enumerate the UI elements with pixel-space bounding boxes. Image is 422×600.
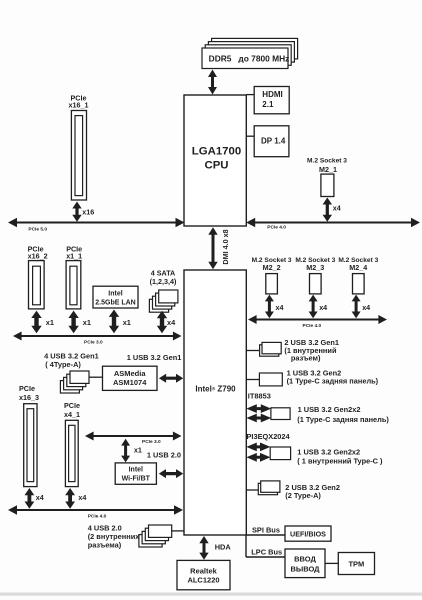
port USB Gen2x2 rear Type-C: [271, 408, 290, 420]
M.2 socket M2_1: [307, 158, 347, 197]
svg-text:x4_1: x4_1: [64, 410, 80, 419]
svg-text:разъема): разъема): [88, 540, 122, 549]
bus PCIe 5.0 CPU left: [8, 218, 185, 233]
svg-text:PCIe 3.0: PCIe 3.0: [142, 439, 161, 445]
svg-text:Intel® Z790: Intel® Z790: [195, 385, 236, 394]
svg-text:x4: x4: [319, 303, 327, 312]
wire x16_3 x4 arrow: [25, 488, 44, 509]
svg-text:M2_3: M2_3: [306, 263, 324, 272]
wire USB2 stack to chipset: [172, 530, 184, 532]
wire IT8853 arrows: [246, 404, 271, 422]
svg-text:x4: x4: [333, 203, 341, 212]
wire M2_3 x4 arrow: [309, 295, 328, 319]
svg-text:ВЫВОД: ВЫВОД: [290, 564, 320, 573]
svg-text:HDMI: HDMI: [262, 90, 282, 99]
svg-text:(1 Type-C задняя панель): (1 Type-C задняя панель): [287, 376, 379, 385]
label 4 USB 2.0: [88, 523, 141, 549]
decorative: [0, 593, 422, 596]
wire x16_2 x1 arrow: [31, 311, 54, 334]
ports 4 SATA stack: [149, 268, 178, 312]
svg-text:M2_4: M2_4: [349, 263, 367, 272]
bus PCIe 3.0 upper: [13, 332, 182, 346]
slot PCIe x4_1: [64, 401, 80, 486]
slot PCIe x16_1: [69, 93, 89, 200]
port USB Gen2x2 internal Type-C: [270, 447, 290, 460]
wire HDA link arrow: [199, 536, 231, 560]
redriver IT8853: [248, 391, 271, 400]
port DP 1.4: [254, 126, 289, 157]
svg-text:M2_1: M2_1: [319, 165, 337, 174]
svg-text:ASMedia: ASMedia: [114, 369, 147, 378]
svg-text:(2 Type-A): (2 Type-A): [285, 491, 321, 500]
label 4 USB 3.2 Gen1: [44, 351, 99, 369]
label 2 USB 3.2 Gen2: [285, 483, 340, 500]
slot PCIe x16_3: [19, 384, 39, 486]
ports USB 2.0 stack: [139, 525, 172, 547]
bus PCIe 4.0 M.2 row: [248, 315, 387, 329]
wire PI3EQX2024 arrows: [246, 443, 270, 462]
wire DDR5 to CPU arrow: [208, 70, 217, 95]
svg-text:DP 1.4: DP 1.4: [261, 136, 286, 145]
svg-text:TPM: TPM: [348, 559, 364, 568]
svg-text:PCIe 4.0: PCIe 4.0: [303, 323, 322, 329]
port HDMI 2.1: [254, 87, 289, 114]
svg-text:x1: x1: [46, 318, 54, 327]
wire IO to TPM: [325, 562, 338, 564]
svg-text:UEFI/BIOS: UEFI/BIOS: [290, 529, 326, 538]
svg-text:PCIe 4.0: PCIe 4.0: [88, 514, 107, 520]
ports 2 USB 3.2 Gen1: [260, 342, 282, 356]
chipset Intel Z790: [184, 270, 246, 535]
svg-text:ALC1220: ALC1220: [187, 576, 219, 585]
M.2 socket M2_3: [295, 257, 335, 294]
redriver PI3EQX2024: [247, 432, 291, 441]
svg-text:x16_1: x16_1: [69, 100, 89, 109]
svg-text:x4: x4: [362, 303, 370, 312]
wire LPC bus: [246, 535, 285, 558]
module Intel Wi-Fi BT: [115, 463, 156, 484]
svg-text:PCIe: PCIe: [64, 401, 80, 410]
bus PCIe 4.0 CPU right: [246, 218, 420, 231]
svg-text:PCIe 4.0: PCIe 4.0: [267, 224, 286, 230]
svg-text:x4: x4: [167, 318, 176, 327]
memory DDR5 stack: [202, 38, 298, 68]
svg-text:LPC Bus: LPC Bus: [251, 548, 282, 557]
svg-text:x4: x4: [36, 493, 44, 502]
ports 2 USB 3.2 Gen2: [258, 481, 280, 495]
svg-text:ВВОД: ВВОД: [294, 554, 316, 563]
svg-text:x1: x1: [134, 446, 142, 455]
M.2 socket M2_4: [338, 257, 378, 294]
svg-text:1 USB 2.0: 1 USB 2.0: [147, 451, 181, 460]
wire CPU to DP: [246, 135, 254, 137]
svg-text:1 USB 3.2 Gen1: 1 USB 3.2 Gen1: [127, 353, 182, 362]
wire chipset to USB Gen2 pair: [246, 489, 258, 491]
module TPM: [338, 553, 374, 575]
wire SATA x4 arrow: [157, 311, 176, 333]
svg-text:2.5GbE LAN: 2.5GbE LAN: [95, 300, 135, 307]
svg-text:4 USB 3.2 Gen1: 4 USB 3.2 Gen1: [44, 351, 99, 360]
svg-text:PCIe: PCIe: [19, 384, 35, 393]
svg-text:(1 Type-C задняя панель): (1 Type-C задняя панель): [297, 415, 389, 424]
bus PCIe 3.0 lower: [85, 432, 182, 446]
label 2 USB 3.2 Gen1: [284, 338, 339, 363]
label 1 USB 2.0: [147, 451, 181, 460]
svg-text:x16_2: x16_2: [28, 252, 48, 261]
svg-text:( 1 внутренний Type-C ): ( 1 внутренний Type-C ): [297, 456, 383, 465]
wire bus to WiFi x1 arrow: [121, 439, 142, 463]
svg-text:DDR5 до 7800 MHz: DDR5 до 7800 MHz: [209, 54, 290, 64]
svg-text:CPU: CPU: [204, 160, 228, 172]
svg-text:LGA1700: LGA1700: [192, 146, 241, 158]
svg-text:2.1: 2.1: [262, 100, 274, 109]
wire M2_4 x4 arrow: [352, 295, 371, 319]
slot PCIe x1_1: [66, 245, 82, 309]
svg-text:x4: x4: [276, 303, 284, 312]
svg-text:M.2 Socket 3: M.2 Socket 3: [307, 158, 347, 165]
wire LAN x1 arrow: [109, 310, 131, 334]
label 1 USB 3.2 Gen1: [127, 353, 182, 362]
wire M2_1 x4 arrow: [323, 198, 341, 222]
svg-text:PI3EQX2024: PI3EQX2024: [247, 432, 291, 441]
bus PCIe 4.0 bottom: [8, 505, 183, 519]
svg-text:Wi-Fi/BT: Wi-Fi/BT: [122, 476, 151, 483]
wire ASMedia to chipset arrow: [159, 374, 183, 383]
svg-text:x16: x16: [82, 207, 94, 216]
wire SPI bus: [246, 526, 285, 535]
controller Intel 2.5GbE LAN: [93, 286, 138, 308]
svg-text:Intel: Intel: [129, 467, 143, 474]
svg-text:x4: x4: [78, 493, 86, 502]
svg-text:Intel: Intel: [108, 291, 122, 298]
svg-text:x1: x1: [83, 318, 91, 327]
svg-text:PCIe 5.0: PCIe 5.0: [28, 226, 47, 232]
svg-text:ASM1074: ASM1074: [113, 378, 147, 387]
wire x16_1 x16 arrow: [72, 202, 94, 222]
label 1 USB 3.2 Gen2: [287, 369, 379, 386]
codec Realtek ALC1220: [177, 560, 230, 589]
label 1 USB 3.2 Gen2x2 rear: [297, 405, 389, 424]
slot PCIe x16_2: [28, 245, 48, 309]
svg-text:Realtek: Realtek: [190, 567, 218, 576]
svg-text:( 4Type-A): ( 4Type-A): [45, 360, 81, 369]
hub ASMedia ASM1074: [103, 366, 158, 390]
ports USB 3.2 Gen1 stack: [60, 371, 89, 393]
wire DMI 4.0 x8 link: [208, 227, 230, 269]
flash UEFI BIOS: [285, 526, 331, 541]
svg-text:разъем): разъем): [291, 354, 321, 363]
svg-text:M2_2: M2_2: [263, 263, 281, 272]
wire WiFi to chipset arrow: [159, 469, 183, 478]
svg-text:PCIe 3.0: PCIe 3.0: [84, 339, 103, 345]
wire x4_1 x4 arrow: [65, 488, 86, 509]
superio VVOD VYVOD: [285, 549, 325, 578]
svg-text:x1_1: x1_1: [66, 252, 82, 261]
svg-text:(1,2,3,4): (1,2,3,4): [150, 277, 177, 286]
svg-text:DMI 4.0 x8: DMI 4.0 x8: [221, 229, 230, 264]
wire x1_1 x1 arrow: [68, 311, 91, 334]
svg-text:x16_3: x16_3: [19, 393, 39, 402]
wire USB stack to ASMedia: [89, 376, 103, 378]
svg-text:HDA: HDA: [215, 542, 232, 551]
port 1 USB 3.2 Gen2: [259, 373, 282, 386]
M.2 socket M2_2: [252, 257, 292, 294]
wire chipset to USB Gen1 pair: [246, 350, 259, 352]
svg-text:1 USB 3.2 Gen2x2: 1 USB 3.2 Gen2x2: [297, 447, 360, 456]
svg-text:x1: x1: [123, 318, 131, 327]
wire CPU to HDMI: [246, 94, 254, 96]
CPU LGA1700: [184, 95, 246, 226]
svg-text:1 USB 3.2 Gen2x2: 1 USB 3.2 Gen2x2: [298, 405, 361, 414]
svg-text:SPI Bus: SPI Bus: [252, 526, 280, 535]
wire chipset to USB Gen2 port: [246, 379, 259, 381]
label 1 USB 3.2 Gen2x2 internal: [297, 447, 383, 465]
svg-text:IT8853: IT8853: [248, 391, 271, 400]
wire M2_2 x4 arrow: [265, 295, 284, 319]
